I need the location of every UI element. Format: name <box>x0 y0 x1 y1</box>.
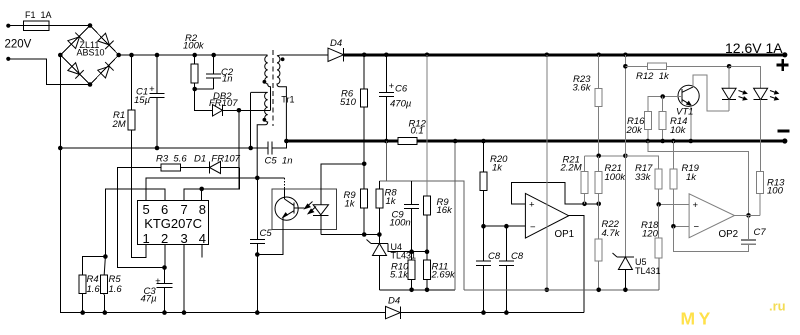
bridge diode bottom-right <box>97 62 113 78</box>
svg-text:2M: 2M <box>112 119 126 130</box>
svg-text:220V: 220V <box>5 39 32 51</box>
transformer Tr1 <box>248 50 286 178</box>
resistor R12 0.1 <box>398 138 417 145</box>
fuse F1 <box>23 21 49 31</box>
svg-text:C8: C8 <box>511 251 524 262</box>
svg-text:Tr1: Tr1 <box>281 95 294 105</box>
wire OP1 plus feedback loop <box>511 182 601 206</box>
diode D4 bottom <box>386 306 401 318</box>
node output plus terminal <box>782 52 787 57</box>
svg-text:2: 2 <box>161 231 168 246</box>
optocoupler box <box>272 189 336 230</box>
wire pin4 stub <box>201 244 203 257</box>
optocoupler LED <box>313 189 328 235</box>
svg-text:1: 1 <box>143 231 150 246</box>
primary winding <box>265 56 271 111</box>
wire shunt line right <box>464 289 659 291</box>
svg-text:47µ: 47µ <box>141 294 158 305</box>
svg-text:8: 8 <box>199 202 206 217</box>
svg-text:+: + <box>155 276 161 287</box>
wire U4 ground line <box>379 289 455 291</box>
op-amp OP1 <box>525 193 568 238</box>
bridge rectifier ZL11 ABS10 diamond <box>58 23 121 87</box>
wire R2 C2 bottoms to DB2 <box>192 87 213 111</box>
svg-text:2.2M: 2.2M <box>560 163 582 174</box>
wire LED cathode to U4 line <box>321 234 380 236</box>
wire R18 riser <box>658 258 660 290</box>
wire R23 node jog <box>585 154 659 159</box>
capacitor C2 <box>206 53 221 89</box>
resistor R23 <box>595 53 602 156</box>
node AC terminal 2 <box>6 57 10 61</box>
transistor VT1 <box>678 75 729 143</box>
svg-text:−: − <box>694 222 700 233</box>
wire VT1 base line <box>648 94 682 111</box>
wire minus rail right part <box>417 140 785 143</box>
svg-text:1.6: 1.6 <box>87 284 101 295</box>
wire pin5 feedback line <box>146 178 285 201</box>
capacitor C6 <box>379 53 394 144</box>
svg-text:D4: D4 <box>330 38 342 49</box>
resistor R9 16k <box>424 53 431 252</box>
resistor R2 <box>191 53 198 89</box>
capacitor C5 vertical <box>250 178 265 313</box>
resistor R14 <box>659 97 666 144</box>
resistor R3 <box>118 164 210 267</box>
wire pin3 to bus <box>183 244 185 312</box>
svg-text:2.69k: 2.69k <box>431 270 456 281</box>
svg-text:100n: 100n <box>390 218 411 229</box>
svg-text:510: 510 <box>340 97 357 108</box>
wire drain node vertical DB2 to pins 7 8 <box>202 110 239 189</box>
svg-text:470µ: 470µ <box>390 99 412 110</box>
svg-text:10k: 10k <box>670 125 687 136</box>
svg-text:100k: 100k <box>605 172 627 183</box>
capacitor C5 1n snubber <box>268 139 289 155</box>
wire sense riser right <box>453 139 458 290</box>
resistor R4 <box>79 257 105 313</box>
svg-text:+: + <box>529 200 535 211</box>
svg-text:−: − <box>530 222 536 233</box>
resistor R16 <box>644 112 651 144</box>
node ground junction <box>58 146 63 151</box>
plus symbol <box>777 59 789 71</box>
svg-text:7: 7 <box>181 202 188 217</box>
wire terminal1 to fuse <box>8 25 23 27</box>
svg-text:120: 120 <box>642 229 659 240</box>
wire +12V top rail <box>344 53 785 56</box>
resistor R19 <box>670 139 677 227</box>
wire opto emitter to ground column <box>255 230 283 257</box>
wire R6 to opto LED anode <box>321 164 364 189</box>
LED HL2 <box>729 66 768 171</box>
node pin5 line aux junction <box>255 176 260 181</box>
wire OP1 output to bus <box>569 216 584 313</box>
svg-text:TL431: TL431 <box>635 266 661 276</box>
resistor R21 2.2M <box>581 156 588 204</box>
bridge diode top-left <box>67 33 83 49</box>
resistor R8 <box>376 181 383 237</box>
svg-text:12.6V 1A: 12.6V 1A <box>725 40 783 56</box>
svg-text:1k: 1k <box>345 199 356 210</box>
diode D1 FR107 <box>209 162 239 174</box>
opto light arrows <box>305 202 316 214</box>
resistor R9 1k <box>361 164 368 237</box>
svg-text:1k: 1k <box>386 196 397 207</box>
TL431 U5 <box>613 253 635 292</box>
svg-text:KTG207C: KTG207C <box>144 216 202 231</box>
svg-text:20k: 20k <box>626 125 644 136</box>
wire U5 supply vertical <box>623 53 628 258</box>
svg-text:R3 5.6: R3 5.6 <box>156 154 187 165</box>
svg-text:F1 1A: F1 1A <box>25 10 52 20</box>
resistor R10 <box>408 252 415 292</box>
wire minus rail left part <box>286 140 398 143</box>
wire opto collector dotted <box>284 178 286 189</box>
svg-text:1n: 1n <box>222 74 233 85</box>
wire U4 ref line <box>388 244 429 255</box>
svg-text:C5 1n: C5 1n <box>265 156 293 167</box>
wire pin7 pin8 line <box>184 168 239 201</box>
capacitor C8 first <box>476 226 491 315</box>
wire OP2 plus input <box>656 202 689 207</box>
wire bottom bus <box>62 310 585 315</box>
svg-text:0.1: 0.1 <box>411 126 424 137</box>
wire supply vertical mid <box>545 53 550 293</box>
svg-text:D4: D4 <box>388 296 400 307</box>
node R4 R5 junction <box>103 254 108 259</box>
resistor R12 1k <box>625 63 729 70</box>
resistor R17 <box>625 156 662 205</box>
svg-text:ABS10: ABS10 <box>77 48 105 58</box>
svg-text:1.6: 1.6 <box>109 284 123 295</box>
wire terminal2 to bridge bottom <box>8 59 90 85</box>
minus symbol <box>778 130 790 133</box>
wire R8 C9 top line <box>379 181 464 290</box>
svg-text:C7: C7 <box>754 227 767 238</box>
op-amp OP2 <box>689 194 734 238</box>
svg-text:33k: 33k <box>635 172 652 183</box>
svg-text:C8: C8 <box>488 251 501 262</box>
LED HL1 arrows <box>739 91 747 101</box>
IC KTG207C box <box>138 200 209 246</box>
svg-text:15µ: 15µ <box>134 95 151 106</box>
node output minus terminal <box>782 138 787 143</box>
resistor R6 <box>361 53 368 167</box>
svg-text:16k: 16k <box>437 205 454 216</box>
resistor R18 <box>655 204 662 258</box>
svg-text:1k: 1k <box>686 172 697 183</box>
svg-text:OP2: OP2 <box>719 229 739 240</box>
svg-text:+: + <box>389 81 395 92</box>
wire pin6 line to R4 R5 <box>105 189 165 256</box>
aux winding <box>251 92 268 177</box>
svg-text:4.7k: 4.7k <box>602 228 621 239</box>
capacitor C9 <box>404 181 419 252</box>
svg-text:+: + <box>693 200 699 211</box>
capacitor C8 second <box>499 226 514 315</box>
LED HL2 arrows <box>770 91 778 101</box>
svg-text:FR107: FR107 <box>209 98 238 109</box>
capacitor C3 <box>157 265 173 312</box>
svg-text:D1 FR107: D1 FR107 <box>194 154 241 165</box>
svg-text:R12 1k: R12 1k <box>636 71 670 82</box>
svg-text:OP1: OP1 <box>555 229 575 240</box>
svg-text:1k: 1k <box>492 162 503 173</box>
resistor R21 100k <box>595 156 602 204</box>
svg-text:5.1k: 5.1k <box>390 270 409 281</box>
TL431 U4 <box>367 235 389 290</box>
svg-text:6: 6 <box>161 202 168 217</box>
svg-text:+: + <box>149 84 155 95</box>
resistor R5 <box>101 257 108 313</box>
svg-text:4: 4 <box>199 231 206 246</box>
core <box>272 50 274 126</box>
svg-text:100: 100 <box>767 186 784 197</box>
node AC terminal 1 <box>6 24 10 28</box>
optocoupler phototransistor <box>275 189 304 230</box>
wire +DC rail primary side <box>119 54 268 56</box>
svg-text:C6: C6 <box>395 84 408 95</box>
svg-text:3.6k: 3.6k <box>573 83 592 94</box>
diode DB2 FR107 <box>213 105 271 116</box>
bridge diode bottom-left <box>67 62 83 78</box>
wire OP1 minus input line <box>481 224 525 229</box>
wire sense line upper <box>379 141 386 181</box>
svg-text:C5: C5 <box>260 228 273 239</box>
svg-text:5: 5 <box>143 202 150 217</box>
resistor R22 <box>595 204 602 292</box>
capacitor C7 <box>673 215 756 251</box>
resistor R11 <box>424 252 431 292</box>
resistor R1 <box>128 53 146 258</box>
capacitor C1 <box>150 53 165 151</box>
wire OP2 output <box>735 214 761 216</box>
resistor R13 <box>757 172 764 216</box>
wire fuse to bridge top <box>49 25 90 27</box>
wire OP2 minus input <box>671 224 689 229</box>
secondary winding <box>277 55 286 141</box>
wire -DC left vertical <box>60 55 61 313</box>
wire primary ground line <box>60 147 268 149</box>
svg-text:3: 3 <box>181 231 188 246</box>
bridge diode top-right <box>97 33 113 49</box>
wire R16 jog to OP2 output <box>648 141 751 218</box>
svg-text:100k: 100k <box>183 41 205 52</box>
svg-text:.ru: .ru <box>769 299 786 314</box>
svg-text:MY: MY <box>681 309 714 329</box>
resistor R20 <box>480 139 487 227</box>
LED HL1 <box>722 64 736 111</box>
diode D4 top <box>281 48 344 61</box>
